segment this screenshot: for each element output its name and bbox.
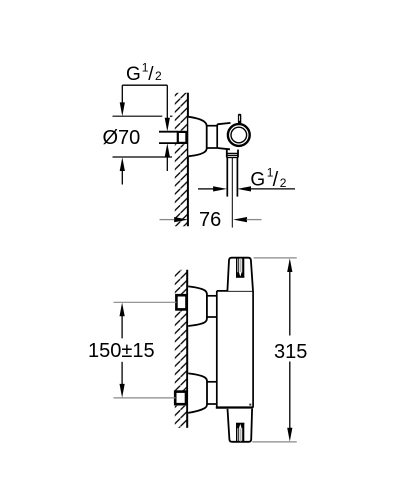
bottom handle grip slot <box>236 423 244 441</box>
svg-text:2: 2 <box>280 176 287 190</box>
svg-text:150±15: 150±15 <box>88 340 155 362</box>
tiny marking near body bottom right <box>249 404 251 406</box>
svg-text:/: / <box>148 64 154 85</box>
body bar (plan) <box>216 291 253 408</box>
escutcheon bottom (plan) <box>188 373 207 413</box>
extension lines 150±15 (gray) <box>114 302 177 398</box>
leader drop right with arrow to supply pipe <box>165 85 170 131</box>
union nut in wall (top view) <box>178 132 187 143</box>
G 1/2 outlet arrows <box>198 186 295 191</box>
neck cylinder (side view) <box>207 126 217 148</box>
dimension 315 <box>274 258 307 441</box>
wall face line (top view) <box>187 93 189 227</box>
dimension 76 <box>160 209 262 231</box>
union nut top (plan) <box>176 295 186 309</box>
svg-text:/: / <box>273 169 279 191</box>
svg-text:315: 315 <box>274 341 307 363</box>
wall hatching (bottom view) <box>173 270 188 428</box>
valve body (side view) <box>217 123 230 149</box>
bottom handle (plan) <box>228 409 253 442</box>
temperature handle inner ring <box>231 127 247 143</box>
collar below body <box>227 150 238 158</box>
svg-text:76: 76 <box>199 209 221 231</box>
extension lines 315 (gray) <box>252 258 296 442</box>
escutcheon top (plan) <box>188 286 207 326</box>
svg-text:2: 2 <box>155 69 162 83</box>
wall hatching (top view) <box>173 93 188 227</box>
temperature handle outer ring (end view) <box>228 124 250 146</box>
label leader line under G 1/2 <box>122 84 167 86</box>
neck bottom (plan) <box>207 382 217 404</box>
svg-text:G: G <box>250 169 265 190</box>
svg-text:G: G <box>126 64 141 85</box>
pipe centerline extension <box>231 158 233 228</box>
handle stem (top of circle) <box>238 114 241 125</box>
label G 1/2 (top, wall supply) <box>126 61 162 86</box>
top handle grip slot <box>236 258 244 277</box>
union nut bottom (plan) <box>175 392 186 405</box>
arrow up to pipe bottom (G 1/2 supply) <box>165 143 170 171</box>
label G 1/2 (outlet) <box>250 165 286 191</box>
dimension 150±15 <box>88 303 155 398</box>
Ø70 bottom arrow <box>120 157 125 184</box>
supply pipe stub lines <box>159 132 178 143</box>
outlet pipe (G 1/2 shower outlet) <box>227 157 237 196</box>
neck top (plan) <box>207 296 217 317</box>
top handle (plan) <box>227 258 253 291</box>
Ø70 extension line top <box>113 115 163 117</box>
Ø70 extension line bottom <box>113 156 173 158</box>
leader drop left with arrow to escutcheon top <box>120 85 125 116</box>
wall face line (bottom view) <box>186 270 188 428</box>
escutcheon (side view) <box>188 117 206 157</box>
svg-text:Ø70: Ø70 <box>103 127 141 149</box>
